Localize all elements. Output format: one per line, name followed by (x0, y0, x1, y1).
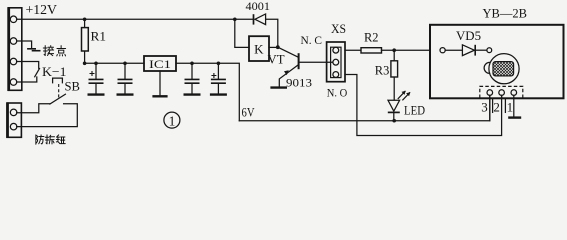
resistor R3 (391, 61, 398, 77)
svg-text:6V: 6V (242, 105, 255, 119)
switch K-1 lower stub (17, 77, 37, 82)
wire R2 to YB box (382, 49, 431, 51)
module YB-2B box (430, 25, 564, 99)
J1 pin 3 (10, 58, 17, 65)
wire diode to collector node (266, 19, 278, 47)
connector XS inner box (331, 47, 341, 77)
buzzer magnet hatched (493, 62, 514, 76)
wire J2 pin1 to SB left contact (17, 104, 50, 113)
pin 3 stub (489, 95, 491, 120)
label 防拆钮 (drawn glyphs) (36, 135, 65, 144)
diode VD5 cathode bar (474, 45, 476, 56)
diode LED triangle (388, 100, 400, 111)
node bus R1 (83, 62, 87, 66)
connector plug dashed box (480, 86, 523, 98)
pin 2 stub (501, 95, 503, 98)
node collector (276, 45, 280, 49)
wire K to collector node (269, 46, 278, 48)
wire K feed (235, 19, 249, 47)
relay coil K box (249, 36, 269, 61)
pin separator a (492, 98, 494, 112)
svg-text:N. O: N. O (327, 85, 348, 99)
contact plate a (27, 48, 36, 50)
wire J1 pin2 to contact stub (17, 41, 32, 48)
svg-text:N. C: N. C (301, 33, 323, 47)
pin separator b (504, 98, 506, 112)
svg-text:XS: XS (331, 22, 346, 36)
contact plate b (32, 50, 41, 52)
switch K-1 upper stub (17, 62, 39, 69)
node R3 top (392, 48, 396, 52)
pushbutton SB cap (53, 78, 63, 83)
transistor VT collector lead (278, 47, 298, 57)
svg-text:K−1: K−1 (42, 64, 67, 79)
XS socket 1 (333, 47, 339, 53)
wire SB right contact to J2 pin2 (17, 104, 78, 127)
svg-text:2: 2 (493, 100, 500, 115)
wire XS3 N.O loop (345, 75, 502, 136)
J1 pin 2 (10, 38, 17, 45)
resistor R1 leads (84, 19, 86, 63)
wire IC1 ground leg (159, 71, 161, 95)
svg-text:4001: 4001 (246, 1, 271, 13)
node LED bottom (392, 119, 396, 123)
IC U1 box (144, 56, 176, 71)
capacitor C1 (electrolytic) (88, 63, 105, 94)
wire LED to rail (393, 113, 395, 120)
ground IC1 (152, 95, 167, 97)
plug pin 1 circle (511, 90, 517, 96)
transistor VT emitter arrowhead (284, 70, 289, 75)
wire VD5 to speaker terminal (475, 49, 487, 51)
connector XS outer box (327, 42, 345, 82)
switch K-1 blade (35, 69, 40, 77)
plug pin 2 circle (499, 90, 505, 96)
XS socket 2 (333, 59, 339, 65)
LED arrow 2 (403, 93, 410, 100)
resistor R2 (361, 48, 382, 53)
LED arrow 1 (398, 91, 405, 98)
svg-text:K: K (254, 41, 264, 56)
wire mid bus (85, 63, 240, 120)
capacitor C2 (117, 63, 134, 94)
svg-text:VD5: VD5 (456, 29, 481, 43)
capacitor C3 (184, 63, 201, 94)
svg-text:R2: R2 (364, 30, 379, 44)
terminal circle speaker (487, 48, 492, 53)
svg-text:SB: SB (65, 80, 81, 94)
J2 pin 1 (10, 109, 17, 116)
pushbutton SB blade (50, 94, 66, 104)
node bus C2 (123, 62, 127, 66)
ground pin1 (508, 116, 521, 118)
capacitor C4 (electrolytic) (210, 63, 227, 94)
svg-text:3: 3 (481, 100, 488, 115)
node bus C3 (190, 62, 194, 66)
J2 pin 2 (10, 123, 17, 130)
plug pin 3 circle (487, 90, 493, 96)
svg-text:YB—2B: YB—2B (483, 6, 528, 21)
svg-text:R3: R3 (375, 63, 390, 77)
terminal block J1 (top-left) (8, 8, 21, 91)
resistor R3 leads (393, 50, 395, 100)
node bus C4 (217, 62, 221, 66)
node bus C1 (94, 62, 98, 66)
terminal block J2 (bottom-left, anti-tamper) (7, 103, 21, 137)
node K feed (233, 18, 237, 22)
wire into VD5 (445, 49, 462, 51)
label circled 1 (164, 112, 180, 128)
wire 6V rail (239, 96, 489, 121)
buzzer ear clip (484, 62, 489, 73)
J1 pin 4 (10, 79, 17, 86)
wire XS1 to R2 (345, 49, 361, 51)
node R1 top (83, 18, 87, 22)
terminal circle VD5 in (440, 48, 445, 53)
transistor VT base bar (298, 53, 300, 69)
XS socket 3 (333, 72, 339, 78)
wire VT base to XS (300, 61, 333, 63)
svg-text:LED: LED (404, 103, 425, 117)
J1 pin 1 (10, 16, 17, 23)
svg-text:R1: R1 (91, 30, 107, 44)
svg-text:IC1: IC1 (149, 57, 171, 71)
resistor R1 (82, 28, 89, 51)
diode VD (4001) cathode bar (253, 14, 255, 24)
transistor VT emitter lead with arrow (279, 65, 297, 86)
diode VD5 triangle (462, 45, 474, 56)
svg-text:9013: 9013 (286, 78, 312, 90)
label 接点 (drawn glyphs) (43, 46, 65, 56)
diode LED cathode bar (388, 111, 400, 113)
wire +12V top rail (17, 18, 254, 20)
pin 1 stub (513, 95, 515, 116)
svg-text:1: 1 (507, 100, 513, 115)
svg-text:+12V: +12V (26, 3, 58, 18)
svg-text:1: 1 (169, 113, 176, 128)
ground VT emitter (270, 86, 287, 88)
diode VD (4001) triangle (255, 14, 266, 25)
pushbutton SB stem (dashed) (58, 84, 60, 98)
svg-text:VT: VT (268, 53, 285, 67)
buzzer HA body (489, 54, 519, 84)
